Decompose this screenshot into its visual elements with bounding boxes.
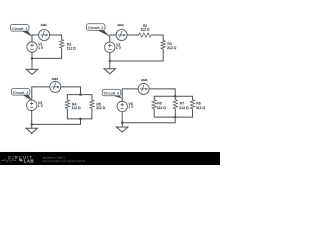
wire AM3 to drop C3	[61, 87, 81, 95]
resistor R2	[139, 33, 152, 37]
wire R3 bottom to junction C2	[110, 49, 163, 61]
svg-text:112 Ω: 112 Ω	[141, 28, 150, 32]
wire R2 to R3 top	[151, 35, 163, 40]
wire top bus C4	[154, 96, 192, 99]
node bottom bus C4	[174, 116, 177, 119]
node top bus C4	[174, 95, 177, 98]
svg-text:AM3: AM3	[52, 77, 59, 81]
ammeter AM3	[50, 81, 61, 92]
node bottom bus C3	[79, 118, 82, 121]
svg-text:212 Ω: 212 Ω	[179, 106, 189, 110]
wire to ground C2	[109, 61, 111, 69]
resistor R5	[90, 100, 94, 109]
svg-text:1 V: 1 V	[38, 104, 44, 108]
svg-text:1 V: 1 V	[38, 46, 44, 50]
node junction C3	[30, 123, 33, 126]
wire AM4 to drop C4	[149, 89, 175, 96]
wire drop to bottom rail C3	[32, 119, 81, 125]
node junction C2	[109, 60, 112, 63]
voltage source V2	[105, 42, 115, 52]
resistor R1	[60, 39, 64, 48]
wire drop to bottom rail C4	[122, 117, 175, 123]
ammeter AM2	[116, 30, 127, 41]
voltage source V3	[26, 100, 36, 110]
ground C2	[104, 69, 115, 74]
svg-text:jmonson / Lab 1: jmonson / Lab 1	[42, 155, 65, 159]
wire AM2 to R2	[127, 34, 139, 36]
logo resistor zigzag	[2, 159, 17, 161]
wire bottom bus C4	[154, 109, 192, 117]
resistor R7	[173, 100, 177, 109]
voltage source V4	[117, 101, 127, 111]
wire corner C1 top-left	[32, 35, 39, 42]
wire V4 bottom to junction	[121, 112, 123, 123]
flag Circuit_3	[11, 88, 32, 100]
wire R7 middle leads C4	[174, 96, 176, 117]
svg-text:112 Ω: 112 Ω	[72, 106, 81, 110]
node junction C4	[121, 122, 124, 125]
svg-text:Circuit_3: Circuit_3	[13, 91, 28, 95]
svg-text:AM1: AM1	[41, 23, 48, 27]
logo bolt	[19, 158, 23, 162]
wire to ground C3	[31, 124, 33, 128]
svg-text:AM2: AM2	[117, 23, 124, 27]
svg-text:LAB: LAB	[24, 159, 35, 164]
wire to ground C4	[121, 123, 123, 127]
ground C3	[26, 128, 37, 133]
svg-text:1 V: 1 V	[128, 105, 134, 109]
svg-text:1 V: 1 V	[116, 46, 122, 50]
svg-text:212 Ω: 212 Ω	[167, 46, 177, 50]
footer bar	[0, 152, 220, 165]
wire V3 bottom to junction	[31, 110, 33, 124]
flag Circuit_2	[86, 24, 110, 37]
svg-text:212 Ω: 212 Ω	[96, 106, 106, 110]
ammeter AM4	[138, 83, 149, 94]
node top bus C3	[79, 93, 82, 96]
resistor R3	[161, 40, 165, 49]
wire V2 bottom to junction	[109, 52, 111, 61]
resistor R6	[152, 100, 156, 109]
svg-text:http://circuitlab.com/cqj23ubu: http://circuitlab.com/cqj23ubu7673e	[43, 159, 86, 163]
wire R1 bottom to junction C1	[32, 48, 62, 58]
resistor R8	[190, 100, 194, 109]
wire corner C3 top-left	[32, 87, 50, 100]
ground C1	[26, 69, 37, 74]
svg-text:112 Ω: 112 Ω	[157, 106, 166, 110]
wire V1 bottom to junction	[31, 52, 33, 58]
svg-text:112 Ω: 112 Ω	[67, 47, 76, 51]
voltage source V1	[27, 42, 37, 52]
ground C4	[116, 127, 127, 132]
flag Circuit_4	[102, 89, 122, 99]
wire to ground C1	[31, 58, 33, 69]
wire bottom bus C3	[67, 109, 92, 119]
ammeter AM1	[39, 29, 50, 40]
wire AM1 to R1 top	[50, 35, 62, 40]
svg-text:AM4: AM4	[141, 78, 148, 82]
resistor R4	[65, 100, 69, 109]
node junction C1	[31, 57, 34, 60]
svg-text:Circuit_4: Circuit_4	[104, 92, 119, 96]
svg-text:Circuit_1: Circuit_1	[12, 27, 27, 31]
wire corner C2 top-left	[110, 35, 116, 42]
wire top bus C3	[67, 95, 92, 100]
svg-text:Circuit_2: Circuit_2	[88, 26, 103, 30]
flag Circuit_1	[10, 24, 32, 36]
svg-text:312 Ω: 312 Ω	[196, 106, 206, 110]
wire corner C4 top-left	[122, 89, 138, 101]
